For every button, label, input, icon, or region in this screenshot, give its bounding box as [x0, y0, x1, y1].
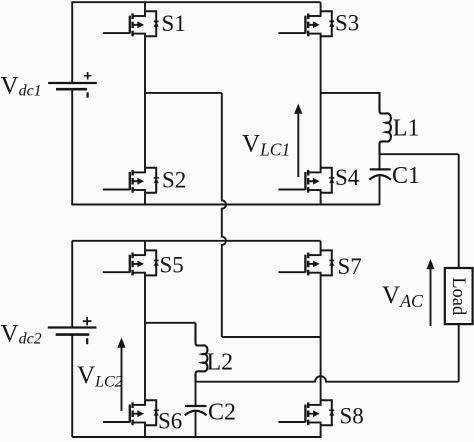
wire left rail (Vdc2 +): [71, 241, 73, 328]
wire bridge1 bottom rail: [72, 204, 379, 206]
transistor S5: [103, 250, 159, 275]
wire bridge2 bottom rail: [72, 436, 321, 438]
transistor S7: [278, 250, 334, 275]
svg-text:S6: S6: [158, 408, 182, 433]
svg-text:VAC: VAC: [382, 282, 424, 311]
wire S4 source: [320, 190, 322, 205]
wire S2 source: [144, 190, 146, 205]
wire left rail upper (Vdc1 +): [71, 1, 73, 83]
wire to node B2: [222, 336, 321, 338]
svg-text:VLC1: VLC1: [242, 130, 290, 159]
svg-text:Vdc2: Vdc2: [1, 320, 42, 347]
wire S6 drain: [144, 323, 146, 405]
wire node A2 to L2: [144, 322, 195, 324]
wire bridge2 top rail: [72, 240, 320, 242]
wire S5 drain: [144, 241, 146, 255]
svg-text:C2: C2: [208, 400, 236, 426]
wire S3 drain: [320, 2, 322, 16]
wire S8 source: [320, 423, 322, 438]
transistor S4: [278, 168, 334, 193]
wire S3 source to node B1: [320, 34, 322, 93]
svg-text:S2: S2: [162, 167, 186, 192]
svg-text:L1: L1: [393, 116, 420, 142]
battery Vdc1: [48, 72, 97, 98]
svg-text:VLC2: VLC2: [77, 362, 123, 391]
wire S1 source to node A1: [144, 34, 146, 93]
arrow VLC2: [117, 338, 125, 411]
transistor S6: [103, 400, 159, 425]
svg-text:S3: S3: [335, 11, 359, 36]
wire A1 column with hops over both rails: [222, 93, 226, 337]
wire S2 drain: [144, 93, 146, 172]
wire S7 drain: [320, 241, 322, 255]
wire L1 junction to load top: [380, 153, 459, 155]
svg-text:S4: S4: [335, 165, 360, 190]
wire top rail: [72, 1, 320, 3]
inductor L1: [380, 92, 391, 154]
wire S6 source: [144, 423, 146, 438]
svg-text:Vdc1: Vdc1: [1, 72, 42, 99]
svg-text:S1: S1: [162, 11, 186, 36]
wire S7 source to node B2: [320, 273, 322, 337]
wire S4 drain: [320, 93, 322, 172]
svg-text:S5: S5: [160, 253, 184, 278]
svg-text:S7: S7: [338, 254, 362, 279]
transistor S8: [278, 400, 334, 425]
svg-text:S8: S8: [340, 403, 364, 428]
svg-text:Load: Load: [448, 277, 468, 316]
battery Vdc2: [48, 317, 97, 344]
wire load leg lower: [458, 324, 460, 382]
capacitor C1: [369, 154, 391, 205]
transistor S3: [278, 11, 334, 36]
svg-text:C1: C1: [392, 163, 420, 189]
arrow VAC: [426, 259, 434, 326]
wire S8 drain: [320, 337, 322, 405]
wire S1 drain: [144, 2, 146, 16]
wire left rail lower (Vdc1 -): [71, 89, 73, 205]
node A1 wire to crossover column: [144, 92, 222, 94]
wire left rail lower (Vdc2 -): [71, 335, 73, 437]
transistor S2: [103, 168, 159, 193]
arrow VLC1: [294, 104, 302, 178]
load box: [445, 268, 473, 324]
wire load leg upper: [458, 154, 460, 268]
wire node B1 to L1: [321, 92, 380, 94]
wire load bottom to LC2 junction with hop: [196, 376, 459, 382]
svg-text:L2: L2: [207, 350, 234, 376]
transistor S1: [103, 11, 159, 36]
wire S5 source to node A2: [144, 273, 146, 323]
inductor L2: [196, 323, 208, 382]
capacitor C2: [185, 382, 207, 437]
